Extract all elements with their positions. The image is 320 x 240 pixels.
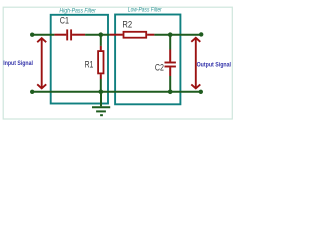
- svg-text:C1: C1: [60, 15, 69, 25]
- wire: C1 to R2 pin (green, through junction): [85, 34, 110, 36]
- svg-text:Output Signal: Output Signal: [197, 62, 232, 69]
- resistor R1 bottom pin (red): [100, 74, 102, 79]
- page background: [0, 0, 240, 124]
- node: C2 bottom rail junction: [168, 90, 173, 95]
- wire: C2 to bottom rail (green): [169, 76, 171, 92]
- node: junction R2/C2/output: [168, 32, 173, 37]
- svg-text:Low-Pass Filter: Low-Pass Filter: [128, 7, 163, 14]
- high-pass filter box: [51, 15, 108, 104]
- capacitor C2 bottom pin (red): [169, 67, 171, 76]
- resistor R1 top pin (red): [100, 46, 102, 51]
- svg-text:C2: C2: [155, 62, 164, 72]
- low-pass filter box: [115, 15, 180, 105]
- resistor R2 body: [124, 32, 147, 38]
- node: input top: [30, 33, 34, 37]
- node: junction C1/R1/R2: [99, 32, 104, 37]
- ground: [92, 92, 110, 115]
- input signal arrow (double headed): [37, 38, 46, 88]
- node: output top: [199, 32, 203, 36]
- svg-text:High-Pass Filter: High-Pass Filter: [59, 8, 96, 15]
- svg-text:R1: R1: [85, 60, 94, 71]
- resistor R2 right pin (red): [147, 34, 154, 36]
- svg-text:R2: R2: [122, 19, 132, 30]
- wire: R2 to output node (green, through junction): [154, 34, 201, 36]
- resistor R1 body: [98, 51, 103, 73]
- wire: R1 to bottom rail (green): [100, 79, 102, 92]
- node: output bottom: [199, 90, 203, 94]
- node: R1 bottom rail junction: [99, 90, 104, 95]
- output signal arrow (double headed): [191, 38, 200, 89]
- node: input bottom: [30, 90, 34, 94]
- outer pale border frame: [3, 7, 232, 119]
- svg-text:Input Signal: Input Signal: [3, 60, 33, 67]
- capacitor C2 plates: [165, 63, 176, 67]
- wire: junction down to R1 (green): [100, 35, 102, 46]
- capacitor C1 left pin (red): [54, 34, 66, 36]
- wire: input node to C1 left pin (top wire, green): [32, 34, 54, 36]
- bottom rail wire (green): [32, 91, 201, 93]
- wire: junction down to C2 (green): [169, 35, 171, 50]
- capacitor C2 top pin (red): [169, 50, 171, 62]
- resistor R2 left pin (red): [110, 34, 123, 36]
- capacitor C1 right pin (red): [72, 34, 85, 36]
- capacitor C1 plates: [67, 29, 71, 40]
